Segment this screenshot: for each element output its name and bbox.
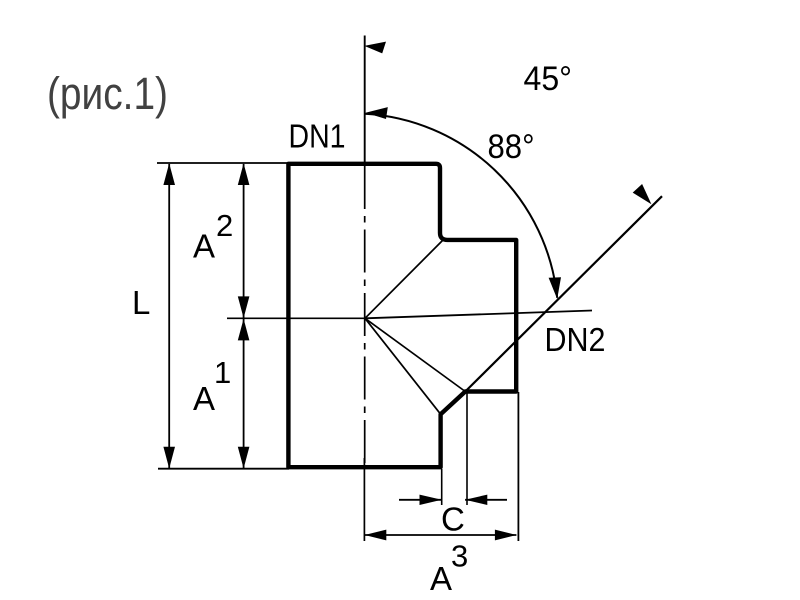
- svg-text:A: A: [193, 380, 215, 417]
- C dimension right arrow: [465, 495, 487, 505]
- dimension A1 line: [243, 319, 245, 469]
- svg-text:A: A: [430, 560, 452, 597]
- tee body outline: [288, 164, 516, 467]
- DN2 axis arrowhead: [633, 184, 652, 204]
- 88deg arrow at DN2 axis: [549, 277, 561, 299]
- center horizontal line: [227, 317, 365, 319]
- svg-text:3: 3: [451, 539, 468, 574]
- svg-text:2: 2: [216, 208, 233, 243]
- svg-text:1: 1: [214, 355, 231, 390]
- top extension line: [157, 162, 289, 164]
- 88deg arrow at DN1 axis: [366, 107, 388, 119]
- DN2 axis line: [465, 196, 662, 391]
- svg-text:(рис.1): (рис.1): [47, 68, 168, 119]
- svg-text:DN1: DN1: [289, 119, 346, 156]
- C dimension right tail: [465, 499, 507, 501]
- A3 dimension line: [364, 534, 516, 536]
- svg-text:88°: 88°: [488, 128, 535, 166]
- svg-text:45°: 45°: [524, 60, 573, 98]
- dimension A1 arrow up: [238, 319, 250, 341]
- 88deg arc: [365, 114, 558, 298]
- svg-text:DN2: DN2: [545, 322, 606, 359]
- DN1 axis line above body: [364, 36, 366, 165]
- dimension L line: [168, 164, 170, 468]
- svg-text:L: L: [132, 284, 150, 321]
- radiating line to chamfer bottom corner: [365, 318, 441, 414]
- dimension A2 arrow up: [238, 163, 250, 185]
- DN1 centerline dash-dot: [364, 166, 366, 464]
- bottom extension line: [158, 468, 289, 470]
- A3 right arrow: [495, 530, 517, 541]
- C dimension left arrow: [420, 495, 442, 505]
- tilted reference line 2deg: [365, 311, 592, 319]
- dimension A2 line: [243, 164, 245, 318]
- C dimension left tail: [399, 499, 442, 501]
- C left extension line: [441, 469, 443, 505]
- svg-text:C: C: [441, 501, 465, 538]
- radiating line to chamfer top corner: [365, 318, 465, 391]
- dimension L arrow up: [163, 163, 175, 185]
- A3 right extension line: [517, 392, 519, 541]
- dimension L arrow down: [163, 447, 175, 469]
- C right extension line: [466, 392, 468, 505]
- dimension A2 arrow down: [238, 296, 250, 318]
- svg-text:A: A: [193, 228, 215, 265]
- 45deg dimension arrow on DN1 axis: [364, 42, 386, 54]
- dimension A1 arrow down: [238, 447, 250, 469]
- centerline extension below body: [363, 458, 365, 541]
- radiating line to step corner: [365, 240, 443, 318]
- A3 left arrow: [365, 530, 387, 541]
